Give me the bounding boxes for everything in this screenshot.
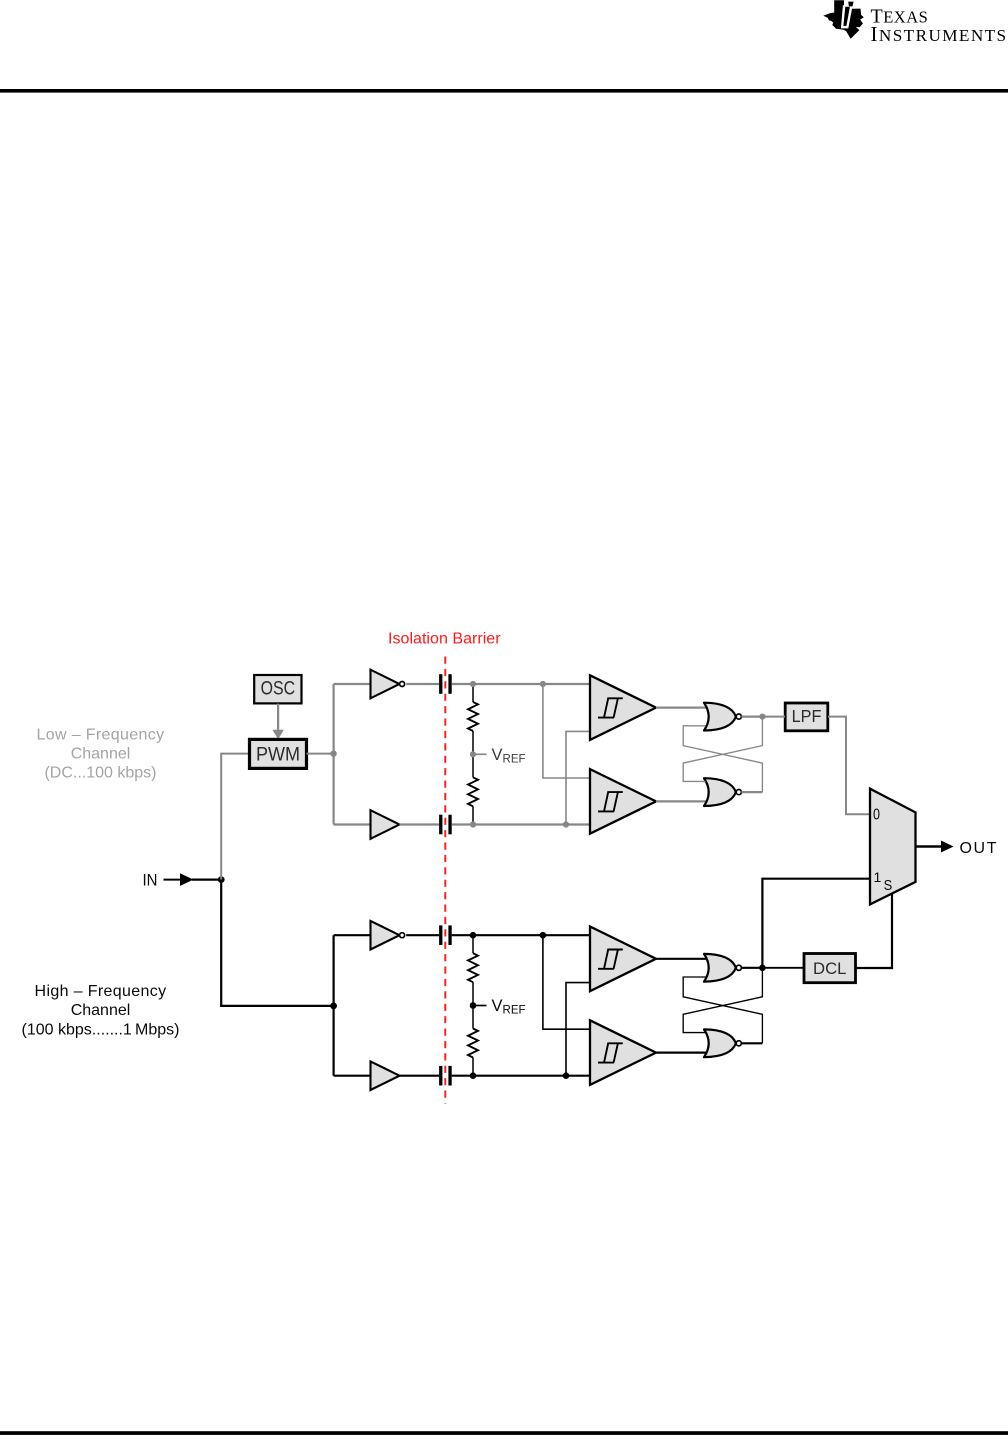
- wire: low-frequency upper cap to comparator A input: [452, 683, 590, 685]
- svg-text:DCL: DCL: [813, 960, 846, 978]
- wire: low-frequency latch feedback NOR A out to NOR B in: [683, 717, 762, 782]
- svg-text:0: 0: [873, 807, 880, 824]
- buffer high-frequency (lower transmit buffer): [371, 1061, 400, 1090]
- wire: high-frequency inverter output to isolation cap: [406, 934, 439, 936]
- resistor high-frequency lower divider: [468, 1029, 478, 1058]
- block DCL (decision logic): [804, 954, 856, 983]
- node VREF low-frequency: [470, 751, 487, 757]
- wire DCL output to mux select S: [856, 893, 893, 968]
- wire: low-frequency upper row to comparator B upper input: [543, 684, 591, 778]
- wire: high-frequency upper cap to comparator A input: [452, 934, 590, 936]
- svg-text:TEXAS: TEXAS: [871, 6, 929, 28]
- junction high-frequency lower row cross tap: [563, 1072, 570, 1079]
- junction high-frequency latch output: [759, 965, 766, 972]
- wire: low-frequency inverter output to isolation cap: [406, 683, 439, 685]
- wire: high-frequency NOR B output: [741, 1042, 762, 1044]
- wire: high-frequency lower row into buffer: [334, 1075, 371, 1077]
- wire: low-frequency lower row to comparator A lower input: [566, 731, 591, 824]
- wire: low-frequency divider stub lower: [472, 806, 474, 824]
- wire: high-frequency comparator A output to NOR A: [656, 958, 706, 960]
- wire: low-frequency comparator B output to NOR B: [656, 800, 706, 802]
- wire low-frequency latch to LPF: [762, 716, 785, 718]
- wire: low-frequency comparator A output to NOR A: [656, 706, 706, 708]
- junction high-frequency upper cap / divider: [470, 932, 477, 939]
- comparator low-frequency A (Schmitt): [590, 675, 656, 740]
- bottom horizontal rule: [0, 1431, 1008, 1435]
- svg-text:1: 1: [874, 869, 882, 885]
- wire high-frequency latch to mux input 1: [762, 879, 869, 968]
- junction high-frequency upper row cross tap: [540, 932, 547, 939]
- svg-text:Low – Frequency: Low – Frequency: [37, 726, 165, 743]
- svg-text:VREF: VREF: [492, 746, 526, 766]
- wire: high-frequency divider mid lower: [472, 1006, 474, 1029]
- wire IN to splitter junction: [192, 878, 221, 880]
- junction IN node: [218, 876, 225, 883]
- capacitor low-frequency lower (isolation capacitor): [439, 815, 452, 835]
- wire: low-frequency lower cap to comparator B input: [452, 823, 590, 825]
- junction low-frequency lower row cross tap: [563, 821, 569, 827]
- svg-text:OSC: OSC: [261, 678, 296, 699]
- wire IN node up to PWM (low-frequency tap): [221, 754, 249, 880]
- junction low-frequency lower cap / divider: [470, 821, 476, 827]
- capacitor high-frequency lower (isolation capacitor): [439, 1066, 452, 1086]
- svg-text:PWM: PWM: [256, 744, 300, 765]
- resistor low-frequency upper divider: [468, 702, 478, 731]
- svg-text:IN: IN: [143, 870, 158, 889]
- wire: low-frequency buffer output to isolation cap: [400, 823, 440, 825]
- wire: low-frequency splitter vertical: [333, 684, 335, 825]
- resistor low-frequency lower divider: [468, 777, 478, 806]
- IN arrowhead: [180, 873, 194, 886]
- top horizontal rule: [0, 89, 1008, 93]
- wire: low-frequency NOR B output: [741, 791, 762, 793]
- svg-text:(DC...100 kbps): (DC...100 kbps): [44, 765, 156, 782]
- junction low-frequency splitter: [330, 750, 336, 756]
- wire PWM output to splitter: [307, 753, 334, 755]
- junction high-frequency splitter: [330, 1003, 337, 1010]
- comparator high-frequency B (Schmitt): [590, 1020, 656, 1085]
- junction low-frequency upper cap / divider: [470, 681, 476, 687]
- wire LPF to mux input 0: [828, 717, 870, 815]
- label: High - Frequency Channel: [22, 983, 180, 1039]
- wire: low-frequency NOR A output: [741, 715, 762, 717]
- NOR gate low-frequency B: [704, 778, 741, 806]
- svg-text:OUT: OUT: [960, 840, 999, 857]
- wire: high-frequency buffer output to isolation cap: [400, 1075, 440, 1077]
- OUT arrowhead: [941, 841, 954, 853]
- capacitor high-frequency upper (isolation capacitor): [439, 925, 452, 945]
- wire: high-frequency latch feedback NOR A out to NOR B in: [683, 968, 762, 1033]
- resistor high-frequency upper divider: [468, 953, 478, 982]
- wire: low-frequency lower row into buffer: [334, 823, 371, 825]
- wire: low-frequency inverter input from distribution node: [334, 683, 371, 685]
- block PWM (pulse width modulator): [250, 739, 307, 768]
- wire: high-frequency inverter input from distribution node: [334, 934, 371, 936]
- svg-text:Isolation Barrier: Isolation Barrier: [388, 630, 501, 647]
- wire: high-frequency divider mid upper: [472, 982, 474, 1005]
- block OSC (oscillator): [254, 675, 301, 703]
- wire: low-frequency latch feedback NOR B out to NOR A in: [683, 726, 762, 792]
- wire IN node down to high-frequency splitter: [221, 880, 333, 1006]
- svg-text:VREF: VREF: [492, 997, 526, 1017]
- junction low-frequency latch output: [759, 714, 765, 720]
- svg-text:Channel: Channel: [71, 746, 131, 763]
- wire: high-frequency lower row to comparator A lower input: [566, 983, 591, 1076]
- Texas Instruments logo: Texas map bug: [823, 0, 864, 38]
- inverter low-frequency (upper transmit buffer): [371, 670, 405, 699]
- wire: low-frequency divider mid lower: [472, 754, 474, 777]
- wire: high-frequency upper row to comparator B upper input: [543, 935, 591, 1029]
- NOR gate low-frequency A: [704, 703, 741, 731]
- junction high-frequency lower cap / divider: [470, 1072, 477, 1079]
- wire: low-frequency divider stub upper: [472, 684, 474, 702]
- wire OSC to PWM: [277, 704, 279, 731]
- svg-text:INSTRUMENTS: INSTRUMENTS: [871, 22, 1008, 46]
- wire: high-frequency NOR A output: [741, 967, 762, 969]
- wire: high-frequency divider stub lower: [472, 1058, 474, 1076]
- wire: high-frequency divider stub upper: [472, 935, 474, 953]
- label: Low - Frequency Channel (gray): [37, 726, 165, 781]
- capacitor low-frequency upper (isolation capacitor): [439, 674, 452, 694]
- isolation barrier dashed line: [444, 657, 446, 1104]
- NOR gate high-frequency A: [704, 954, 741, 982]
- wire: high-frequency comparator B output to NOR B: [656, 1051, 706, 1053]
- wire IN lead: [164, 879, 182, 881]
- junction low-frequency upper row cross tap: [540, 681, 546, 687]
- svg-text:(100 kbps.......1 Mbps): (100 kbps.......1 Mbps): [22, 1022, 180, 1039]
- wire: low-frequency divider mid upper: [472, 731, 474, 754]
- wire: high-frequency latch feedback NOR B out to NOR A in: [683, 977, 762, 1043]
- svg-text:Channel: Channel: [71, 1002, 131, 1019]
- buffer low-frequency (lower transmit buffer): [371, 810, 400, 839]
- mux output selector: [870, 789, 916, 905]
- svg-text:S: S: [884, 878, 893, 894]
- svg-text:LPF: LPF: [792, 706, 822, 726]
- comparator low-frequency B (Schmitt): [590, 769, 656, 834]
- NOR gate high-frequency B: [704, 1029, 741, 1057]
- inverter high-frequency (upper transmit buffer): [371, 921, 405, 950]
- wire high-frequency latch to DCL: [762, 967, 804, 969]
- block LPF (low pass filter): [785, 703, 828, 731]
- comparator high-frequency A (Schmitt): [590, 927, 656, 992]
- wire: high-frequency lower cap to comparator B input: [452, 1075, 590, 1077]
- svg-text:High – Frequency: High – Frequency: [35, 983, 167, 1000]
- node VREF high-frequency: [470, 1002, 487, 1009]
- wire: high-frequency splitter vertical: [333, 935, 335, 1075]
- wire mux to OUT: [917, 845, 942, 847]
- OSC arrowhead into PWM: [272, 730, 283, 739]
